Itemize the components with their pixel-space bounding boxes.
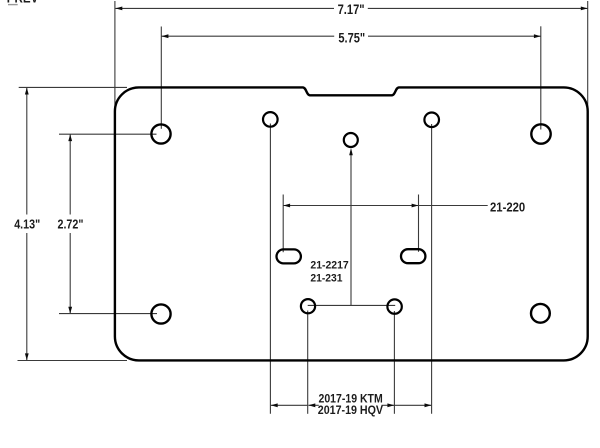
svg-text:21-220: 21-220 xyxy=(490,199,525,214)
svg-text:2.72": 2.72" xyxy=(58,217,84,231)
svg-text:4.13": 4.13" xyxy=(14,217,40,231)
svg-text:21-2217: 21-2217 xyxy=(310,260,348,272)
svg-text:2017-19 HQV: 2017-19 HQV xyxy=(318,403,384,417)
svg-text:21-231: 21-231 xyxy=(310,273,342,285)
svg-text:7.17": 7.17" xyxy=(338,2,365,17)
svg-text:5.75": 5.75" xyxy=(338,31,365,46)
